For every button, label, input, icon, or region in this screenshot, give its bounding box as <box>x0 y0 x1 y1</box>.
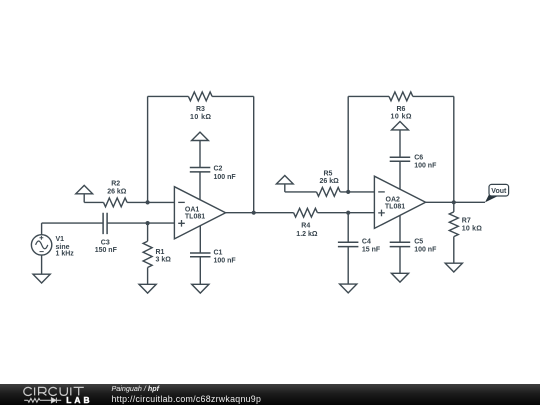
wire C4 top stub <box>347 213 349 243</box>
junction at OA1 output <box>252 211 256 215</box>
svg-text:TL081: TL081 <box>185 214 205 221</box>
svg-text:R7: R7 <box>462 217 471 224</box>
resistor R2 <box>104 198 128 207</box>
wire feedback loop 1 top right <box>212 95 254 97</box>
wire V1 bottom stub <box>41 255 43 274</box>
svg-text:R2: R2 <box>111 181 120 188</box>
capacitor C2 <box>190 168 211 172</box>
svg-text:C3: C3 <box>101 239 110 246</box>
wire feedback loop 1 right vertical <box>253 96 255 212</box>
svg-text:15 nF: 15 nF <box>362 247 381 254</box>
wire feedback loop 1 left vertical <box>147 96 149 202</box>
svg-text:26 kΩ: 26 kΩ <box>320 178 340 185</box>
wire R5 to OA2 - input <box>340 191 374 193</box>
svg-text:3 kΩ: 3 kΩ <box>156 257 172 264</box>
junction at R7 top <box>452 200 456 204</box>
ground (V1) <box>33 274 50 283</box>
svg-text:TL081: TL081 <box>385 204 405 211</box>
ground (C4) <box>340 284 357 293</box>
capacitor C6 <box>390 157 411 161</box>
svg-text:R4: R4 <box>301 223 310 230</box>
svg-text:100 nF: 100 nF <box>414 163 437 170</box>
wire feedback loop 1 top left <box>148 95 189 97</box>
supply arrow (OA1 VCC) <box>192 132 209 167</box>
svg-text:OA2: OA2 <box>386 196 401 203</box>
wire C3 to op-amp + input <box>107 222 174 224</box>
wire supply to R5 <box>285 191 317 193</box>
svg-text:26 kΩ: 26 kΩ <box>107 188 127 195</box>
ground (C5) <box>391 273 408 282</box>
wire C6 to OA2 top pin <box>399 161 401 189</box>
svg-text:10 kΩ: 10 kΩ <box>391 114 413 121</box>
capacitor C3 <box>103 213 107 234</box>
wire OA2 output to Vout <box>426 201 485 203</box>
svg-text:C6: C6 <box>414 155 423 162</box>
op-amp OA2 <box>374 176 425 228</box>
svg-text:10 kΩ: 10 kΩ <box>190 114 212 121</box>
svg-text:R3: R3 <box>196 106 205 113</box>
svg-text:1 kHz: 1 kHz <box>56 250 75 257</box>
node Vout flag <box>485 184 509 202</box>
wire R4 to OA2 + input <box>317 212 374 214</box>
svg-text:LAB: LAB <box>66 395 93 405</box>
wire OA2 bottom pin to C5 <box>399 216 401 243</box>
capacitor C1 <box>190 253 211 257</box>
junction at OA1 - input <box>146 200 150 204</box>
resistor R4 <box>294 208 318 217</box>
svg-text:R5: R5 <box>324 171 333 178</box>
wire signal row V1 to C3 <box>42 222 104 224</box>
wire C4 to ground <box>347 247 349 285</box>
wire C1 to ground <box>199 257 201 285</box>
svg-text:C5: C5 <box>414 239 423 246</box>
supply arrow (R5 input) <box>276 176 293 192</box>
junction at R1 top <box>146 221 150 225</box>
svg-text:OA1: OA1 <box>185 206 200 213</box>
resistor R1 <box>143 223 152 284</box>
svg-text:C4: C4 <box>362 239 371 246</box>
svg-text:100 nF: 100 nF <box>214 258 237 265</box>
resistor R3 <box>188 92 212 101</box>
wire feedback loop 2 left vertical <box>347 96 349 191</box>
capacitor C4 <box>338 242 359 246</box>
junction at C4 top <box>346 211 350 215</box>
op-amp OA1 <box>174 187 225 239</box>
wire supply to R2 <box>84 201 103 203</box>
svg-text:V1: V1 <box>56 236 65 243</box>
resistor R7 <box>449 202 458 263</box>
svg-text:C1: C1 <box>214 249 223 256</box>
wire feedback loop 2 top left <box>348 95 389 97</box>
ground (C1) <box>192 284 209 293</box>
svg-text:R1: R1 <box>156 249 165 256</box>
resistor R6 <box>389 92 413 101</box>
footer bar <box>0 384 540 405</box>
svg-text:1.2 kΩ: 1.2 kΩ <box>296 231 318 238</box>
wire C5 to ground <box>399 247 401 274</box>
svg-text:100 nF: 100 nF <box>214 174 237 181</box>
wire feedback loop 2 top right <box>413 95 454 97</box>
resistor R5 <box>317 188 341 197</box>
wire C2 to OA1 top pin <box>199 172 201 200</box>
voltage source V1 <box>31 235 51 255</box>
svg-text:100 nF: 100 nF <box>414 247 437 254</box>
wire OA1 output <box>226 212 294 214</box>
junction at OA2 - input <box>346 190 350 194</box>
ground (R7) <box>445 263 462 272</box>
supply arrow (R2 input) <box>76 185 93 202</box>
ground (R1) <box>139 284 156 293</box>
svg-text:Vout: Vout <box>491 188 507 195</box>
wire feedback loop 2 right vertical <box>453 96 455 202</box>
svg-text:R6: R6 <box>397 106 406 113</box>
footer title and URL <box>112 384 160 393</box>
svg-text:C2: C2 <box>214 166 223 173</box>
wire OA1 bottom pin to C1 <box>199 226 201 253</box>
svg-text:10 kΩ: 10 kΩ <box>462 225 482 232</box>
svg-text:150 nF: 150 nF <box>95 247 118 254</box>
wire V1 top stub <box>41 223 43 235</box>
CircuitLab logo <box>0 384 100 405</box>
supply arrow (OA2 VCC) <box>392 122 409 158</box>
wire R2 to op-amp - input <box>127 201 174 203</box>
capacitor C5 <box>390 242 411 246</box>
